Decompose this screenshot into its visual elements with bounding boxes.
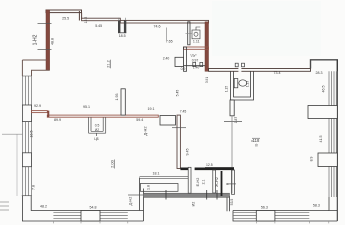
interior brown wall seg1 xyxy=(32,111,48,113)
window end ticks bottom-right wall xyxy=(256,221,329,223)
svg-text:18.5: 18.5 xyxy=(119,34,126,38)
bottom right pier1 xyxy=(256,211,275,222)
bottom right window lines xyxy=(233,213,309,219)
top-right step wall xyxy=(311,60,338,72)
svg-text:41.5: 41.5 xyxy=(319,136,323,143)
svg-text:3.91: 3.91 xyxy=(205,77,209,83)
sill line left xyxy=(16,134,18,196)
svg-text:И2: И2 xyxy=(95,128,99,132)
svg-text:73.4: 73.4 xyxy=(274,71,281,75)
stub partition in left room xyxy=(121,89,125,115)
tick y121.5 xyxy=(224,121,242,123)
svg-text:2.00: 2.00 xyxy=(110,159,115,168)
balcony inner rect xyxy=(140,184,178,192)
wall step x81 xyxy=(79,11,81,21)
scan tint patch top-right xyxy=(212,1,321,56)
svg-text:21.2: 21.2 xyxy=(107,60,111,67)
bottom left pier xyxy=(81,211,100,222)
right wall pier2 tab xyxy=(318,153,337,167)
door jambs toilet room xyxy=(235,63,238,67)
svg-text:1-Н2: 1-Н2 xyxy=(33,34,39,45)
bottom left window lines xyxy=(53,213,127,219)
tick inside sink room xyxy=(186,33,193,35)
entrance steps bottom-left xyxy=(0,202,9,210)
svg-text:1.13: 1.13 xyxy=(245,81,249,87)
window end ticks bottom-left wall xyxy=(53,221,127,223)
step wall left room xyxy=(140,178,144,222)
tick x128-142 xyxy=(128,194,144,196)
svg-text:1.87: 1.87 xyxy=(234,117,238,124)
svg-text:7.45: 7.45 xyxy=(180,110,187,114)
sink fixture xyxy=(192,27,200,39)
svg-text:46.5: 46.5 xyxy=(322,86,326,93)
right window band lines xyxy=(329,71,336,197)
thin line down from stub xyxy=(231,116,233,193)
sill tick top xyxy=(2,133,23,135)
room label 21.2 xyxy=(107,60,111,69)
svg-text:7.65: 7.65 xyxy=(166,40,173,44)
tick y127.7 xyxy=(172,127,186,129)
tick across band at corner xyxy=(22,195,32,197)
right wall pier1 tab xyxy=(308,106,337,119)
tick y23.4 xyxy=(38,22,52,24)
door leaf corridor xyxy=(160,116,176,126)
svg-text:54.8: 54.8 xyxy=(90,206,97,210)
svg-text:0.97: 0.97 xyxy=(192,59,199,63)
svg-text:28.3: 28.3 xyxy=(316,71,323,75)
closet box below wall xyxy=(89,117,106,136)
room label 118 xyxy=(251,138,260,148)
tick right of block xyxy=(227,183,236,185)
svg-text:58.3: 58.3 xyxy=(313,203,320,207)
stub below toilet room xyxy=(230,100,234,116)
shaft below top wall xyxy=(118,18,126,33)
interior brown wall seg2 xyxy=(47,115,158,117)
small rooms block top wall xyxy=(180,168,234,171)
block left wall xyxy=(184,47,187,71)
svg-text:ЦБ: ЦБ xyxy=(94,137,99,141)
bottom-right corner block xyxy=(329,197,337,211)
wall under LU room xyxy=(184,65,206,67)
svg-text:1.15: 1.15 xyxy=(224,86,228,92)
right wall outer xyxy=(336,60,338,221)
svg-text:25.5: 25.5 xyxy=(62,17,69,21)
toilet fixture xyxy=(234,79,247,88)
corridor wall vertical xyxy=(177,115,180,168)
small rooms right wall xyxy=(232,170,235,194)
svg-text:19.1: 19.1 xyxy=(148,107,155,111)
window top tick xyxy=(22,75,31,77)
svg-text:53.5: 53.5 xyxy=(230,199,234,206)
svg-text:18.1: 18.1 xyxy=(153,172,160,176)
svg-text:9.45: 9.45 xyxy=(186,149,190,156)
svg-text:Ж-Н2: Ж-Н2 xyxy=(215,177,219,187)
svg-text:16.5: 16.5 xyxy=(30,131,34,138)
svg-text:1.40: 1.40 xyxy=(193,66,200,70)
dark hatched band xyxy=(143,193,229,197)
svg-text:2.1: 2.1 xyxy=(202,180,206,185)
svg-text:92.9: 92.9 xyxy=(34,104,41,108)
left wall pier2 xyxy=(22,153,31,167)
bottom wall right section xyxy=(233,211,337,222)
sink room partition xyxy=(188,22,190,45)
wall left vertical brown x46 xyxy=(46,10,50,70)
svg-text:56.3: 56.3 xyxy=(261,206,268,210)
wall top-B brown right part xyxy=(120,20,208,23)
toilet room walls xyxy=(231,71,254,100)
door rect left of block xyxy=(175,57,184,66)
svg-text:1.8: 1.8 xyxy=(147,185,151,190)
svg-text:118: 118 xyxy=(253,138,260,143)
closet labels xyxy=(94,124,99,142)
svg-text:74.6: 74.6 xyxy=(154,24,161,28)
svg-text:8.9: 8.9 xyxy=(310,157,314,162)
wall connector xyxy=(47,111,49,118)
svg-text:Д-Н2: Д-Н2 xyxy=(143,126,148,136)
svg-text:"ЛУ": "ЛУ" xyxy=(190,54,198,58)
svg-text:5.45: 5.45 xyxy=(95,24,102,28)
svg-text:Е-Н2: Е-Н2 xyxy=(196,178,200,187)
left wall pier1 xyxy=(22,105,31,122)
small rooms thick partition xyxy=(221,171,223,196)
svg-text:И2: И2 xyxy=(192,202,196,207)
svg-text:1.93: 1.93 xyxy=(115,94,119,101)
svg-text:0.9: 0.9 xyxy=(181,67,186,71)
svg-text:89.9: 89.9 xyxy=(54,118,61,122)
svg-text:5.45: 5.45 xyxy=(176,90,180,97)
small rooms left wall xyxy=(188,167,191,193)
svg-text:48.2: 48.2 xyxy=(40,204,47,208)
svg-text:0.5: 0.5 xyxy=(95,124,100,128)
svg-text:59.4: 59.4 xyxy=(136,118,143,122)
svg-text:Д-Н2: Д-Н2 xyxy=(129,197,133,206)
svg-text:95.1: 95.1 xyxy=(83,105,90,109)
svg-text:1.11: 1.11 xyxy=(193,40,200,44)
left wall window band xyxy=(22,76,31,196)
svg-text:7.8: 7.8 xyxy=(32,185,36,190)
svg-text:2.40: 2.40 xyxy=(163,57,170,61)
tick sink area xyxy=(166,28,168,41)
toilet door gap in wall xyxy=(238,68,241,72)
ticks on band xyxy=(166,190,217,200)
thin wall above balcony xyxy=(140,177,189,179)
wall top-A brown xyxy=(46,10,82,13)
wall top-B brown left part xyxy=(82,18,121,21)
svg-text:12.2: 12.2 xyxy=(84,17,88,24)
step wall right room to bottom xyxy=(227,194,230,211)
svg-text:12.5: 12.5 xyxy=(206,163,213,167)
bottom wall left section xyxy=(22,196,143,221)
long wall right section xyxy=(209,69,311,72)
small rooms thin top line xyxy=(205,166,234,168)
elevation 2.00 rot xyxy=(110,159,115,168)
door jambs LU room xyxy=(193,62,196,66)
svg-text:48.8: 48.8 xyxy=(51,38,55,45)
top block right wall brown xyxy=(205,22,209,72)
top-left bay jog wall xyxy=(22,60,49,76)
svg-text:б!: б! xyxy=(255,144,258,148)
small rooms partition1 xyxy=(213,170,216,193)
tick y49.4 xyxy=(38,48,52,50)
wall under sink room xyxy=(184,47,209,49)
